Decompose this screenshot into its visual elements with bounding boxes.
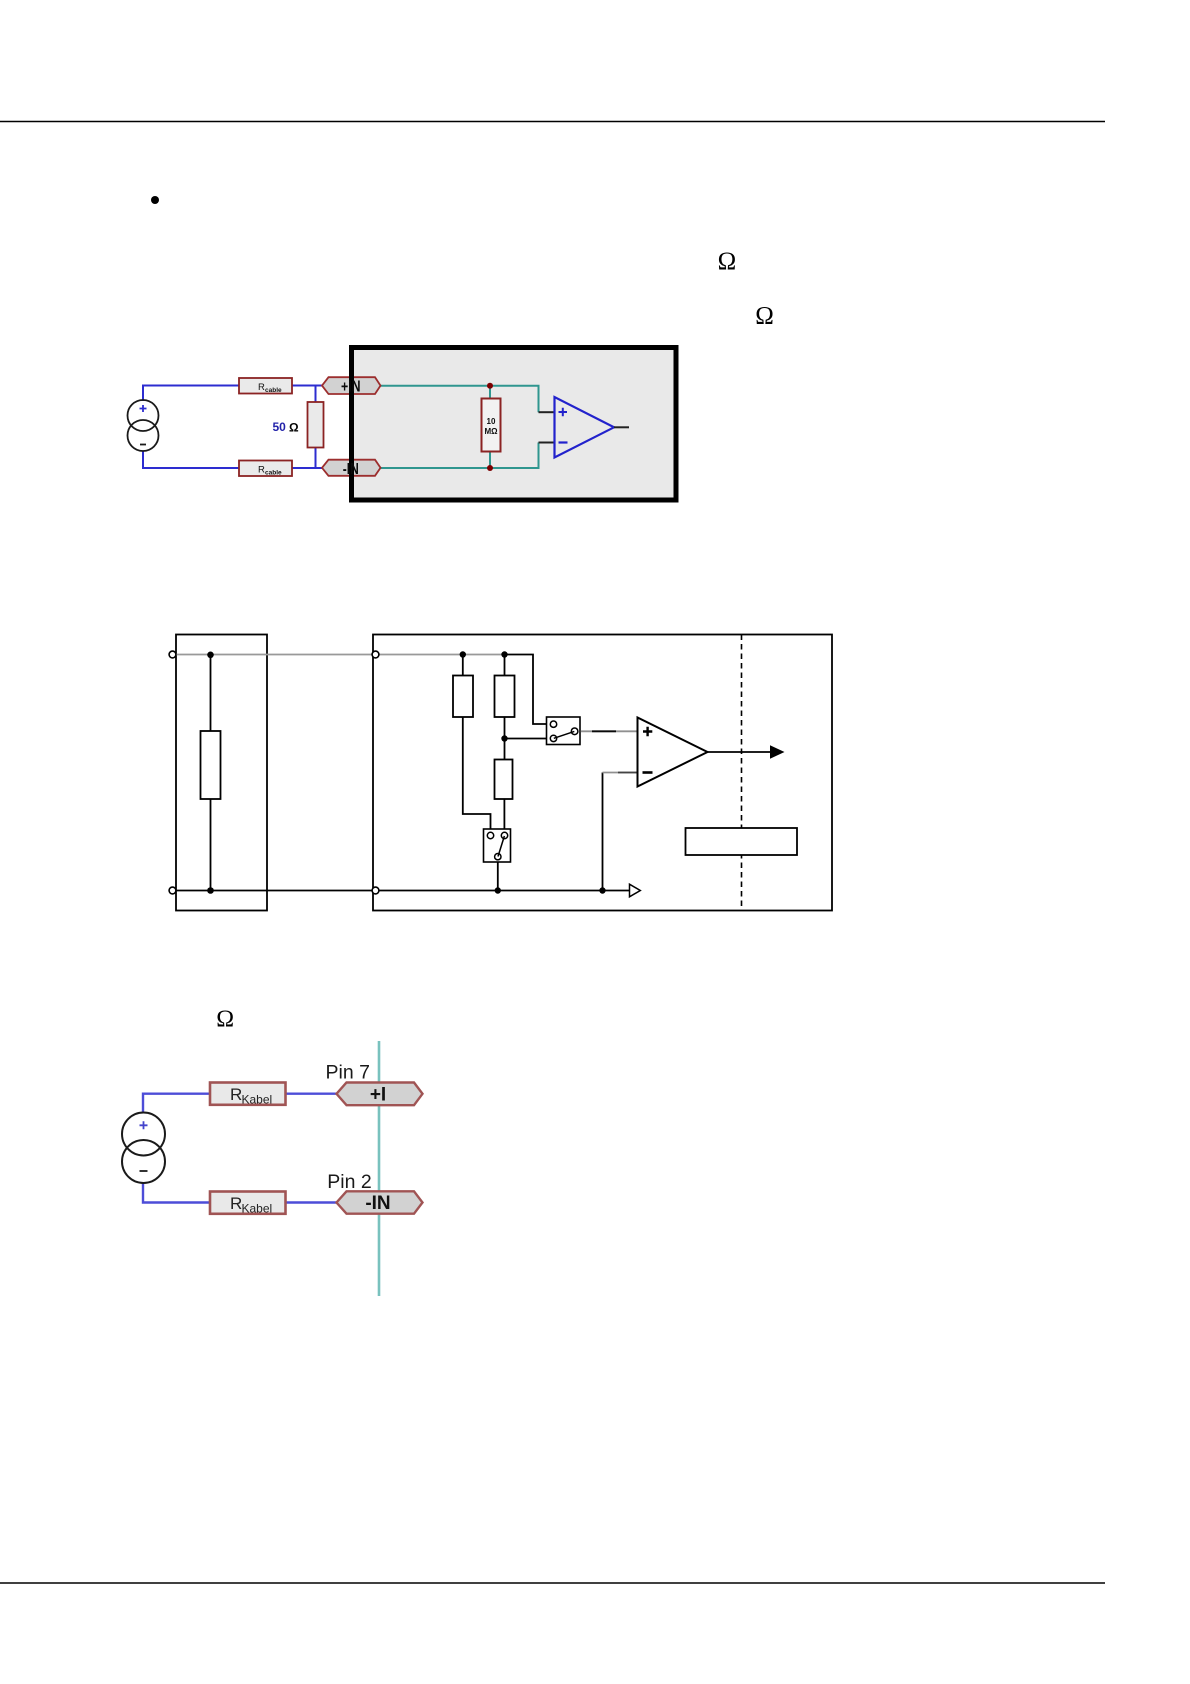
output arrow bbox=[770, 745, 785, 759]
svg-text:10: 10 bbox=[487, 417, 496, 426]
wire: Rcable to +IN with branch down bbox=[292, 386, 322, 403]
wire RKabel to +I bbox=[286, 1092, 337, 1094]
ADC block bbox=[686, 828, 798, 855]
device box fill bbox=[353, 349, 676, 500]
resistor R3 bbox=[495, 760, 513, 800]
connector -IN body bbox=[322, 460, 381, 476]
wire sensor resistor leads bbox=[210, 655, 212, 891]
svg-text:R: R bbox=[230, 1085, 242, 1104]
footer rule bbox=[0, 1582, 1105, 1584]
connector -IN bbox=[337, 1191, 423, 1214]
svg-text:-IN: -IN bbox=[365, 1193, 390, 1214]
wire teal branch to 10M resistor bbox=[489, 386, 491, 468]
op-amp U2 bbox=[638, 718, 708, 787]
svg-text:+I: +I bbox=[370, 1085, 386, 1106]
svg-text:Ω: Ω bbox=[216, 1007, 234, 1033]
svg-text:Ω: Ω bbox=[289, 421, 299, 435]
wire bottom bus bbox=[175, 890, 631, 892]
svg-text:Kabel: Kabel bbox=[242, 1202, 273, 1216]
sensor box bbox=[176, 635, 267, 911]
resistor RKabel (bottom) bbox=[210, 1192, 286, 1216]
resistor 10M input impedance bbox=[482, 399, 501, 452]
main box bbox=[373, 635, 832, 911]
wire switch to opamp + (black then gray) bbox=[581, 730, 637, 732]
svg-text:Kabel: Kabel bbox=[242, 1093, 273, 1107]
svg-text:R: R bbox=[258, 465, 265, 476]
switch S1 (range select) bbox=[547, 717, 581, 745]
op-amp U1A bbox=[555, 397, 615, 458]
node C divider tap bbox=[501, 735, 507, 741]
junction node top bbox=[487, 383, 493, 389]
wire source + to RKabel bbox=[143, 1094, 210, 1113]
wire stub to opamp - bbox=[539, 442, 555, 444]
current source I1 bbox=[128, 400, 159, 451]
resistor R1 bbox=[453, 676, 473, 718]
svg-text:Ω: Ω bbox=[718, 248, 737, 275]
resistor RKabel (top) bbox=[210, 1083, 286, 1107]
wire stub to opamp + bbox=[539, 411, 555, 413]
node A top bus left bbox=[460, 651, 466, 657]
wire R3 to lower switch bbox=[503, 799, 505, 829]
bullet bbox=[151, 196, 159, 204]
wire opamp2 output bbox=[708, 751, 771, 753]
node sensor top bbox=[207, 652, 214, 659]
wire R2 to R3 bbox=[504, 717, 506, 760]
svg-text:50: 50 bbox=[273, 420, 287, 434]
resistor R2 bbox=[495, 676, 515, 718]
terminal amp + bbox=[372, 651, 379, 658]
wire node to upper switch lower pole bbox=[505, 738, 547, 740]
wire bus to opamp - (vertical) bbox=[602, 773, 604, 891]
switch S2 (shunt select) bbox=[484, 829, 511, 862]
wire R1 bottom to lower switch bbox=[463, 717, 491, 829]
svg-text:-IN: -IN bbox=[343, 461, 359, 478]
device box border bbox=[352, 348, 677, 501]
connector +I bbox=[337, 1083, 423, 1106]
node bus S2 bbox=[495, 887, 501, 893]
svg-text:Pin 7: Pin 7 bbox=[326, 1062, 370, 1084]
resistor Rcable (top) bbox=[239, 378, 292, 394]
wire teal -IN to opamp bbox=[381, 443, 539, 469]
current source I2 bbox=[122, 1113, 165, 1184]
svg-text:cable: cable bbox=[265, 470, 282, 477]
svg-text:R: R bbox=[230, 1194, 242, 1213]
node B top bus right bbox=[501, 651, 507, 657]
ground arrow on bus bbox=[630, 884, 641, 897]
terminal amp - bbox=[372, 887, 379, 894]
wire R2 top lead bbox=[504, 655, 506, 676]
svg-text:R: R bbox=[258, 382, 265, 393]
terminal sensor - bbox=[169, 887, 176, 894]
wire teal +IN to opamp bbox=[381, 386, 539, 412]
wire: bottom Rcable to -IN with branch up bbox=[292, 448, 322, 469]
svg-text:+IN: +IN bbox=[341, 379, 361, 396]
svg-text:cable: cable bbox=[265, 387, 282, 394]
wire R1 top lead bbox=[462, 655, 464, 676]
wire top bus (gray) bbox=[175, 654, 505, 656]
connector board line (teal) bbox=[378, 1041, 381, 1296]
dashed partition bbox=[741, 635, 743, 911]
wire source - to RKabel2 bbox=[143, 1183, 210, 1203]
resistor 50 Ohm shunt bbox=[308, 402, 324, 448]
terminal sensor + bbox=[169, 651, 176, 658]
label 50 Ohm bbox=[273, 420, 300, 435]
svg-text:MΩ: MΩ bbox=[484, 427, 498, 436]
wire S2 to bottom bus bbox=[497, 862, 499, 891]
header rule bbox=[0, 121, 1105, 123]
junction node bottom bbox=[487, 465, 493, 471]
wire top bus to upper switch bbox=[505, 655, 547, 725]
node bus opamp - bbox=[599, 887, 605, 893]
svg-text:Ω: Ω bbox=[755, 302, 774, 329]
resistor Rcable (bottom) bbox=[239, 461, 292, 477]
wire RKabel2 to -IN bbox=[286, 1201, 337, 1203]
sensor resistor bbox=[201, 731, 221, 799]
wire opamp output bbox=[614, 426, 629, 428]
wire: source - to bottom Rcable (blue, bottom) bbox=[143, 451, 239, 469]
connector +IN body bbox=[322, 377, 381, 394]
node sensor bottom bbox=[207, 887, 214, 894]
wire: source + to Rcable (blue, top) bbox=[143, 386, 239, 402]
svg-text:Pin 2: Pin 2 bbox=[327, 1171, 371, 1193]
